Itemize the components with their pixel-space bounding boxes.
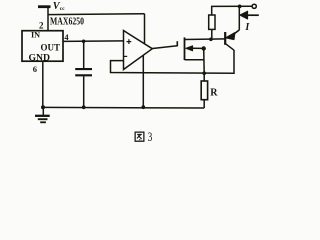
wire source down to R bbox=[203, 49, 206, 82]
power Vcc bar bbox=[38, 5, 51, 8]
wire Vcc drop to pin 2 bbox=[47, 8, 49, 31]
IC U1 MAX6250 box bbox=[22, 31, 63, 62]
transistor Q2 base bar bbox=[224, 32, 226, 45]
wire R bottom to rail bbox=[203, 100, 205, 108]
svg-text:cc: cc bbox=[60, 6, 65, 12]
caption glyph 图 hand drawn bbox=[135, 132, 144, 141]
wire ground rail bbox=[43, 106, 204, 109]
terminal output circle bbox=[252, 4, 256, 8]
svg-text:2: 2 bbox=[39, 20, 44, 30]
wire R2 bottom lead bbox=[211, 29, 213, 39]
wire op-amp V- to ground bbox=[142, 55, 144, 107]
wire source stub bbox=[185, 59, 204, 61]
node source-arrow junction bbox=[202, 46, 206, 50]
wire drain to resistor node and base bbox=[185, 38, 226, 41]
op-amp minus sign bbox=[124, 55, 127, 57]
node capacitor ground bbox=[82, 105, 86, 109]
wire OUT pin 4 to op-amp bbox=[63, 40, 124, 43]
current arrow I bbox=[247, 14, 259, 16]
transistor Q1 channel bar bbox=[184, 37, 186, 60]
op-amp plus sign bbox=[127, 39, 132, 44]
wire inverting input feedback bbox=[111, 50, 235, 73]
svg-text:4: 4 bbox=[64, 32, 69, 42]
svg-text:MAX6250: MAX6250 bbox=[50, 16, 84, 27]
node feedback / R top bbox=[202, 71, 206, 75]
node emitter rail bbox=[238, 5, 242, 9]
transistor Q2 emitter arrow bbox=[226, 33, 235, 40]
wire op-amp V+ lead bbox=[144, 14, 146, 44]
capacitor C1 top lead bbox=[83, 41, 85, 68]
node R2 bottom / drain / base bbox=[209, 38, 213, 42]
op-amp U2 triangle bbox=[124, 31, 153, 70]
capacitor C1 bottom lead bbox=[83, 76, 85, 107]
wire GND pin 6 bbox=[42, 61, 44, 107]
wire emitter up to rail bbox=[238, 6, 240, 30]
svg-text:6: 6 bbox=[33, 64, 37, 74]
label caption digit 3 bbox=[148, 131, 153, 145]
wire op-amp output to gate bbox=[152, 46, 178, 49]
transistor Q1 MOSFET gate bar bbox=[176, 41, 178, 46]
resistor R box bbox=[201, 81, 207, 100]
node op-amp V- ground bbox=[141, 105, 145, 109]
svg-text:IN: IN bbox=[31, 31, 40, 40]
svg-text:R: R bbox=[210, 87, 218, 98]
wire R2 top lead and right rail bbox=[212, 6, 252, 15]
resistor R2 top-right box bbox=[209, 15, 215, 29]
node ground left bbox=[41, 105, 45, 109]
svg-text:3: 3 bbox=[148, 131, 153, 145]
capacitor C1 plates bbox=[75, 68, 92, 70]
svg-text:GND: GND bbox=[29, 53, 51, 63]
ground symbol bbox=[35, 107, 50, 122]
transistor Q1 body arrow bbox=[186, 46, 193, 51]
wire left Vcc rail bbox=[48, 13, 145, 16]
node capacitor tap bbox=[82, 40, 86, 44]
transistor Q2 collector diagonal bbox=[226, 44, 235, 51]
